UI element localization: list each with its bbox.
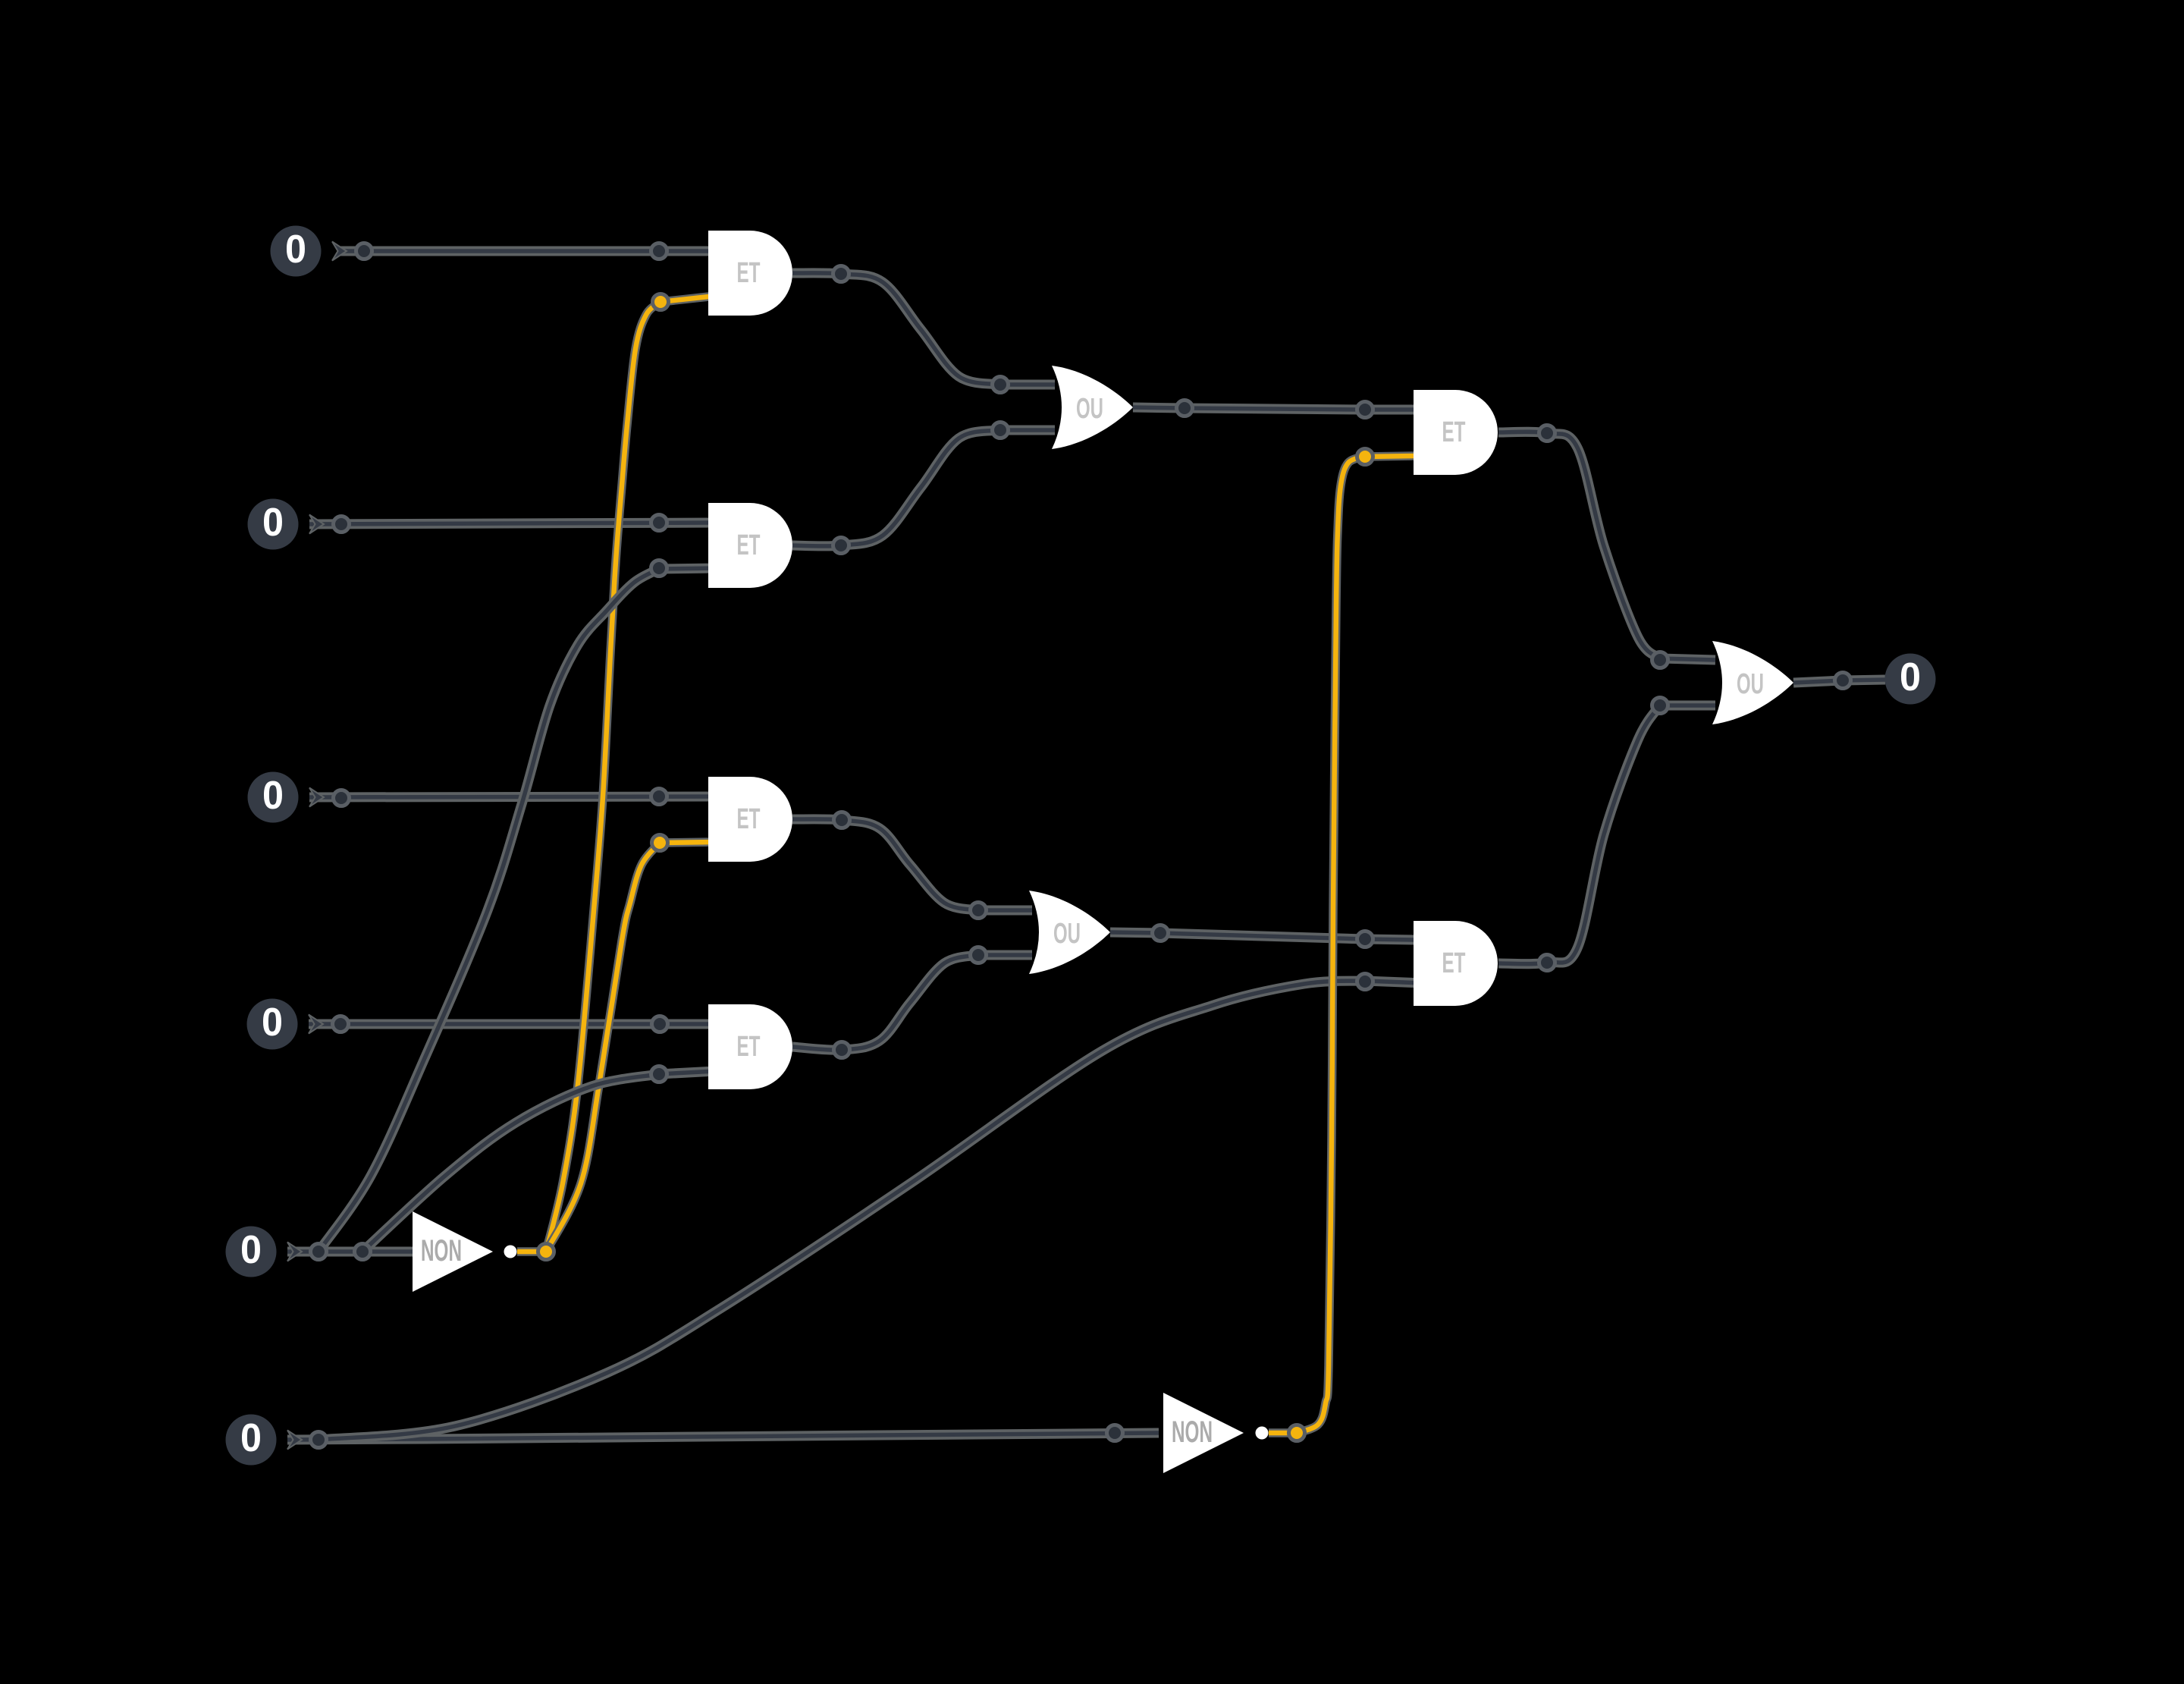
wire ET1 output to OU1 input A	[792, 273, 1055, 385]
svg-text:NON: NON	[1172, 1415, 1213, 1449]
input node I3	[248, 772, 325, 823]
svg-text:0: 0	[285, 228, 306, 272]
node OU1 pin B	[993, 423, 1009, 438]
wire NON2 output to ET3 input B (high)	[1297, 455, 1464, 1433]
wire I1 to ET1 input A	[338, 247, 716, 256]
and gate ET2	[708, 503, 792, 588]
wire ET4 output to OU2 input A	[792, 819, 1032, 910]
input node I4	[247, 999, 324, 1050]
node ET2 out	[833, 538, 849, 554]
node ET1 pin B (high)	[653, 294, 669, 310]
wire NON1 output to ET4 input B (high)	[546, 842, 716, 1252]
svg-text:0: 0	[262, 774, 284, 818]
node ET5 pin B	[651, 1067, 667, 1082]
node ET2 pin B	[651, 561, 667, 577]
and gate ET6	[1414, 921, 1498, 1006]
or gate OU2	[1029, 891, 1110, 974]
node NON2 out	[1289, 1425, 1305, 1441]
node OU2 pin B	[971, 947, 987, 963]
node ET6 pin B	[1357, 974, 1373, 990]
node ET6 out	[1539, 955, 1555, 971]
wire ET2 output to OU1 input B	[792, 430, 1055, 546]
wire NON2 bubble stub	[1269, 1428, 1298, 1437]
not gate NON1	[413, 1211, 493, 1292]
wire ET5 output to OU2 input B	[792, 955, 1032, 1050]
wire S2 to ET6 input B	[318, 981, 1464, 1440]
node I3 stem	[334, 790, 350, 806]
not gate NON2	[1163, 1393, 1244, 1473]
node ET1 out	[833, 266, 849, 282]
wire I6 to NON2 input	[287, 1433, 1159, 1440]
node OU3 out	[1835, 673, 1851, 689]
input node I6 (select S2)	[226, 1415, 303, 1466]
wire S1 to ET5 input B	[362, 1071, 716, 1252]
wire NON1 output to ET1 input B (high)	[546, 296, 716, 1252]
svg-text:ET: ET	[737, 803, 761, 835]
svg-text:0: 0	[262, 501, 284, 545]
input node I1	[271, 226, 347, 277]
wire OU2 output to ET6 input A	[1110, 932, 1464, 941]
NON2 inversion bubble	[1256, 1427, 1269, 1440]
node I6 stem	[311, 1432, 327, 1448]
node NON2 pin in	[1107, 1425, 1123, 1441]
wire I2 to ET2 input A	[309, 523, 716, 524]
svg-text:ET: ET	[1442, 416, 1466, 448]
wire ET6 output to OU3 input B	[1498, 705, 1715, 964]
node ET6 pin A	[1357, 932, 1373, 947]
node ET3 out	[1539, 426, 1555, 441]
svg-text:OU: OU	[1737, 668, 1764, 700]
node ET1 pin A	[651, 243, 667, 259]
svg-text:0: 0	[240, 1416, 262, 1460]
wire OU1 output to ET3 input A	[1133, 407, 1464, 410]
and gate ET5	[708, 1004, 792, 1089]
node OU2 out	[1153, 925, 1169, 941]
node ET2 pin A	[651, 515, 667, 531]
svg-text:0: 0	[262, 1001, 283, 1045]
svg-text:ET: ET	[737, 529, 761, 561]
wire I4 to ET5 input A	[309, 1020, 716, 1029]
node ET5 out	[834, 1042, 850, 1058]
node OU3 pin B	[1652, 698, 1668, 714]
wire I5 to NON1 input	[287, 1247, 416, 1257]
svg-text:ET: ET	[737, 257, 761, 289]
node I5 stem 1	[311, 1244, 327, 1260]
wire OU3 output to OUT node	[1793, 680, 1885, 683]
svg-text:NON: NON	[421, 1234, 462, 1268]
and gate ET4	[708, 777, 792, 862]
node I5 stem 2	[355, 1244, 371, 1260]
node ET4 pin A	[651, 789, 667, 805]
node NON1 out	[538, 1244, 554, 1260]
node ET4 pin B (high)	[652, 835, 668, 851]
NON1 inversion bubble	[504, 1246, 517, 1258]
node I4 stem	[333, 1016, 349, 1032]
node OU3 pin A	[1652, 652, 1668, 668]
output node OUT	[1885, 654, 1936, 705]
node I1 stem	[356, 243, 372, 259]
node ET4 out	[834, 812, 850, 828]
svg-text:ET: ET	[1442, 947, 1466, 979]
node ET3 pin A	[1357, 402, 1373, 418]
svg-text:OU: OU	[1076, 393, 1103, 425]
node I2 stem	[334, 517, 350, 533]
node ET3 pin B (high)	[1357, 449, 1373, 465]
and gate ET1	[708, 231, 792, 316]
or gate OU3	[1712, 641, 1793, 724]
wire I3 to ET4 input A	[309, 796, 716, 797]
input node I2	[248, 499, 325, 550]
input node I5 (select S1)	[226, 1227, 303, 1277]
and gate ET3	[1414, 390, 1498, 475]
wire ET3 output to OU3 input A	[1498, 432, 1715, 660]
svg-text:ET: ET	[737, 1031, 761, 1063]
svg-text:0: 0	[240, 1228, 262, 1272]
or gate OU1	[1052, 366, 1133, 449]
wire NON1 bubble stub	[517, 1247, 548, 1256]
node ET5 pin A	[652, 1016, 668, 1032]
node OU1 pin A	[993, 377, 1009, 393]
svg-text:OU: OU	[1053, 918, 1081, 950]
node OU2 pin A	[971, 903, 987, 919]
node OU1 out	[1177, 401, 1193, 416]
wire S1 to ET2 input B	[318, 568, 716, 1252]
svg-text:0: 0	[1900, 655, 1921, 699]
